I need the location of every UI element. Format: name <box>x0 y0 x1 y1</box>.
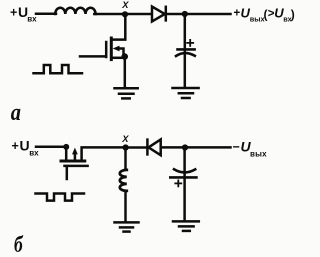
wire node X down to drain (a) <box>113 14 126 40</box>
label b <box>14 233 23 257</box>
wire node X down to inductor (b) <box>124 148 127 170</box>
svg-text:+: + <box>10 6 17 20</box>
svg-text:а: а <box>11 98 21 125</box>
wire inductor to ground (b) <box>124 191 127 222</box>
diode VD1 (a) <box>152 7 165 22</box>
svg-text:+: + <box>234 8 241 20</box>
svg-text:вх: вх <box>29 149 39 158</box>
output node (b) <box>182 144 188 150</box>
transistor VT1 (a) : body lead with arrow <box>118 49 124 55</box>
label +Uvx (b) <box>12 138 40 158</box>
svg-text:б: б <box>14 233 23 257</box>
ground GND1 (b, under inductor) <box>115 222 139 231</box>
transistor VT1 (b) : channel bar <box>61 160 85 163</box>
wire diode to output node (a) <box>166 13 185 16</box>
svg-text:): ) <box>291 8 295 22</box>
wire node X to diode cathode (b) <box>126 146 147 149</box>
svg-text:+: + <box>12 139 19 153</box>
wire output node down to capacitor (a) <box>184 14 187 53</box>
label -Uvyh (b) <box>233 139 268 159</box>
capacitor C1 (b), polarized, flipped <box>170 169 196 186</box>
wire output node down to capacitor (b) <box>183 148 186 178</box>
transistor VT1 (b) : gate stub <box>66 166 69 179</box>
wire input to inductor (a) <box>36 13 56 16</box>
label a <box>11 98 21 125</box>
inductor L1 (a) <box>55 8 95 14</box>
ground GND2 (a, under capacitor) <box>173 88 199 98</box>
wire capacitor to ground (a) <box>184 54 187 88</box>
transistor VT1 (a) : channel bar <box>110 38 113 60</box>
svg-text:X: X <box>121 134 129 144</box>
ground GND2 (b, under capacitor) <box>173 221 199 231</box>
node X (a) <box>122 11 128 17</box>
svg-text:U: U <box>20 138 30 154</box>
ground GND1 (a, under transistor) <box>115 88 138 98</box>
pulse waveform (b), negative pulses <box>36 194 85 201</box>
svg-text:X: X <box>121 0 129 10</box>
label +Uvyh (>Uvx) (a) <box>234 6 295 24</box>
svg-text:вх: вх <box>27 15 37 24</box>
svg-text:вых: вых <box>250 150 267 159</box>
node X (b) <box>123 144 129 150</box>
capacitor C1 (a), polarized <box>176 40 195 56</box>
output node (a) <box>182 11 188 17</box>
transistor VT1 (b) : gate bar <box>65 165 88 168</box>
source-body junction dot (b) <box>63 144 69 150</box>
transistor VT1 (b) : source lead <box>65 147 68 161</box>
wire diode to output node (b) <box>161 146 185 149</box>
source-body junction dot (a) <box>121 53 128 60</box>
wire output node to label (b) <box>185 146 231 149</box>
wire output node to label (a) <box>185 13 231 16</box>
transistor VT1 (a) : gate bar <box>105 42 108 57</box>
wire source to ground (a) <box>124 57 127 88</box>
wire capacitor to ground (b) <box>183 178 186 221</box>
label +Uvx (a) <box>10 4 37 24</box>
svg-text:−: − <box>233 140 240 154</box>
diode VD1 (b) <box>146 140 149 155</box>
wire inductor to diode anode (a) <box>94 13 151 16</box>
transistor VT1 (a) : source lead <box>113 57 125 60</box>
transistor VT1 (b) : body lead with arrow <box>74 153 77 160</box>
wire input to transistor source (b) <box>36 146 66 149</box>
transistor VT1 (a) : gate lead <box>80 55 106 58</box>
transistor VT1 (b) : drain lead <box>82 147 125 160</box>
pulse waveform (a) <box>34 65 83 73</box>
svg-text:вых: вых <box>250 15 265 24</box>
inductor L1 (b), vertical <box>120 170 127 191</box>
